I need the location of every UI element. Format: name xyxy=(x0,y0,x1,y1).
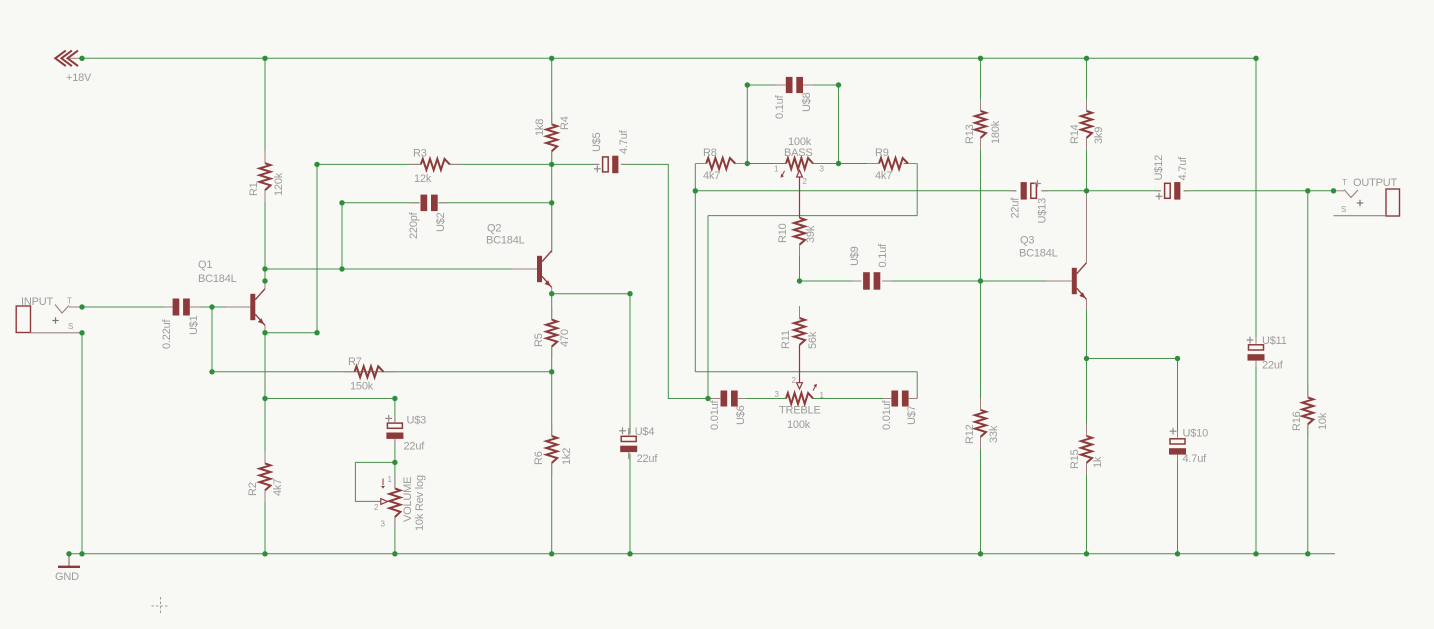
svg-text:1: 1 xyxy=(774,165,779,174)
svg-text:4.7uf: 4.7uf xyxy=(1183,453,1208,465)
junction U$8 right xyxy=(836,82,841,87)
svg-text:U$13: U$13 xyxy=(1037,198,1049,224)
label R9 xyxy=(875,147,889,159)
label U$1 value xyxy=(161,318,173,349)
svg-text:T: T xyxy=(67,297,72,306)
junction Q1 collector branch xyxy=(262,266,267,271)
svg-text:1k: 1k xyxy=(1092,456,1104,468)
junction Q1 emitter xyxy=(262,330,267,335)
svg-text:U$3: U$3 xyxy=(407,415,427,427)
wire R6 to ground rail xyxy=(551,463,553,554)
svg-text:Q1: Q1 xyxy=(198,259,212,271)
wire bass right riser xyxy=(838,85,840,164)
svg-text:0.01uf: 0.01uf xyxy=(709,399,721,430)
svg-text:R12: R12 xyxy=(964,424,976,444)
label R12 xyxy=(964,424,976,444)
junction U$3 top xyxy=(392,396,397,401)
svg-text:Q3: Q3 xyxy=(1020,235,1034,247)
capacitor U$6 0.01uf xyxy=(712,391,746,407)
svg-text:BC184L: BC184L xyxy=(1019,248,1058,260)
label U$4 xyxy=(635,426,655,438)
label VOLUME pin3 xyxy=(381,520,386,529)
junction input tip xyxy=(79,304,84,309)
label R2 value xyxy=(272,479,284,496)
wire U$1 to Q1 base node xyxy=(190,306,251,308)
wire R4 to R3 node xyxy=(551,151,553,164)
transistor Q1 BC184L xyxy=(226,281,265,333)
label U$12 value xyxy=(1177,156,1189,181)
junction gnd R6 xyxy=(549,551,554,556)
junction bass left xyxy=(745,161,750,166)
wire bass left riser xyxy=(746,85,748,164)
label TREBLE pin1 arrow xyxy=(813,384,817,391)
svg-text:22uf: 22uf xyxy=(1010,197,1022,219)
label GND xyxy=(55,571,79,583)
connector OUTPUT jack xyxy=(1334,189,1400,216)
wire R1 branch from rail xyxy=(264,58,266,163)
label R3 xyxy=(413,148,427,160)
junction Q3 emitter xyxy=(1084,356,1089,361)
wire input tip to U$1 xyxy=(82,306,173,308)
junction rail R4 xyxy=(549,56,554,61)
label R16 xyxy=(1291,411,1303,431)
wire Q1 collector node to Q2 base xyxy=(265,268,537,270)
label U$9 xyxy=(849,246,861,266)
wire U$10 to ground rail xyxy=(1177,455,1179,554)
svg-text:1k8: 1k8 xyxy=(534,119,546,136)
label output plus xyxy=(1357,200,1363,206)
svg-text:S: S xyxy=(1341,205,1346,214)
junction gnd sleeve xyxy=(79,551,84,556)
svg-text:BC184L: BC184L xyxy=(198,273,237,285)
label VOLUME pin2 xyxy=(374,503,379,512)
potentiometer TREBLE 100k xyxy=(786,345,813,404)
label R15 value xyxy=(1092,456,1104,468)
svg-text:4k7: 4k7 xyxy=(272,479,284,496)
junction volume branch xyxy=(262,396,267,401)
junction R4 bottom xyxy=(549,162,554,167)
junction U$2 corner xyxy=(339,200,344,205)
wire U$3 volume chain top xyxy=(394,399,396,423)
svg-text:1: 1 xyxy=(388,475,393,484)
capacitor U$7 0.01uf xyxy=(883,391,917,407)
wire R13 node to Q3 base xyxy=(981,280,1048,282)
label U$5 xyxy=(591,132,603,152)
label R13 value xyxy=(990,120,1002,144)
wire R16 to ground rail xyxy=(1307,424,1309,554)
label R14 xyxy=(1069,124,1081,144)
svg-text:R6: R6 xyxy=(533,451,545,465)
junction base node R7 line xyxy=(209,369,214,374)
wire R7 line xyxy=(212,371,552,373)
label U$11 xyxy=(1262,335,1287,347)
svg-text:12k: 12k xyxy=(414,173,432,185)
svg-text:0.22uf: 0.22uf xyxy=(161,318,173,349)
wire R3 line right xyxy=(450,163,552,165)
label R2 xyxy=(247,482,259,496)
label U$7 value xyxy=(881,399,893,430)
label U$8 xyxy=(801,92,813,112)
wire GND rail xyxy=(69,553,1335,555)
junction output tip xyxy=(1331,188,1336,193)
connector INPUT jack xyxy=(16,305,82,333)
junction U$2 base line xyxy=(339,266,344,271)
wire Q3 emitter to R15 xyxy=(1086,359,1088,436)
junction main Q3 xyxy=(1084,188,1089,193)
label Q2 type xyxy=(486,235,525,247)
label R5 xyxy=(533,333,545,347)
wire R7 node to R6 xyxy=(551,372,553,436)
svg-text:S: S xyxy=(68,322,73,331)
label U$5 plus xyxy=(594,165,601,172)
junction R3 corner xyxy=(314,162,319,167)
junction gnd U$11 xyxy=(1253,551,1258,556)
svg-text:R9: R9 xyxy=(875,147,889,159)
label U$12 plus xyxy=(1156,193,1163,200)
label U$8 value xyxy=(774,94,786,119)
junction input sleeve xyxy=(79,330,84,335)
wire R3 left riser xyxy=(316,164,318,332)
junction gnd U$4 xyxy=(627,551,632,556)
origin cross marker xyxy=(152,597,170,615)
svg-text:33k: 33k xyxy=(988,425,1000,443)
wire base node down to R7 line xyxy=(211,307,213,372)
label U$4 value xyxy=(637,453,659,465)
label BASS xyxy=(784,147,813,159)
svg-text:4k7: 4k7 xyxy=(703,170,720,182)
wire R5 to R7 node xyxy=(551,347,553,372)
svg-text:R3: R3 xyxy=(413,148,427,160)
label U$13 value xyxy=(1010,197,1022,219)
label U$4 plus xyxy=(619,427,626,434)
wire +18V rail xyxy=(82,57,1256,59)
wire main line Q3 to U$12 xyxy=(1087,190,1161,192)
label INPUT xyxy=(21,296,53,308)
resistor R2 xyxy=(260,451,271,502)
svg-text:U$8: U$8 xyxy=(801,92,813,112)
svg-text:GND: GND xyxy=(55,571,79,583)
junction rail R1 xyxy=(262,56,267,61)
svg-text:U$2: U$2 xyxy=(435,212,447,232)
resistor R10 xyxy=(794,218,805,256)
svg-text:220pf: 220pf xyxy=(408,211,420,239)
label R1 xyxy=(248,182,260,196)
label R11 value xyxy=(807,331,819,349)
label U$3 plus xyxy=(385,415,392,422)
svg-text:U$9: U$9 xyxy=(849,246,861,266)
label +18V xyxy=(66,72,92,84)
wire R14 branch from rail xyxy=(1086,58,1088,111)
wire base node to R12 xyxy=(980,281,982,410)
svg-text:10k: 10k xyxy=(1317,412,1329,430)
junction U$8 left xyxy=(745,82,750,87)
wire volume pot to ground rail xyxy=(394,517,396,554)
svg-text:0.1uf: 0.1uf xyxy=(774,94,786,119)
capacitor U$11 22uf xyxy=(1248,337,1265,367)
wire U$5 line xyxy=(552,163,600,165)
resistor R3 xyxy=(409,159,462,170)
label VOLUME value xyxy=(414,475,426,531)
wire main line U$13 to Q3 xyxy=(1041,190,1086,192)
label R8 xyxy=(703,147,717,159)
power +18V supply arrow xyxy=(55,51,82,67)
wire +18V rail drop to U$11 xyxy=(1255,58,1257,342)
label R14 value xyxy=(1093,127,1105,144)
label TREBLE value xyxy=(787,419,811,431)
svg-text:3: 3 xyxy=(775,390,780,399)
label U$3 xyxy=(407,415,427,427)
capacitor U$12 4.7uf xyxy=(1156,182,1190,200)
junction Q1 base xyxy=(209,304,214,309)
resistor R5 xyxy=(546,307,557,358)
junction gnd symbol xyxy=(66,551,71,556)
label U$2 value xyxy=(408,211,420,239)
label U$10 xyxy=(1183,428,1209,440)
wire U$3 to volume node xyxy=(394,439,396,463)
junction gnd R15 xyxy=(1084,551,1089,556)
label Q3 type xyxy=(1019,248,1058,260)
wire R15 to ground rail xyxy=(1086,463,1088,554)
capacitor U$2 220pf xyxy=(410,195,448,212)
svg-text:U$10: U$10 xyxy=(1183,428,1209,440)
wire main line U$12 to output xyxy=(1184,190,1334,192)
label U$6 xyxy=(735,405,747,425)
junction bass right xyxy=(836,161,841,166)
svg-text:470: 470 xyxy=(559,329,571,347)
wire U$9 line left xyxy=(800,280,862,282)
wire volume wiper loop xyxy=(355,462,395,501)
label VOLUME xyxy=(402,477,414,522)
svg-text:R10: R10 xyxy=(777,223,789,243)
svg-text:R11: R11 xyxy=(780,330,792,349)
svg-text:39k: 39k xyxy=(805,225,817,243)
capacitor U$13 22uf xyxy=(1010,182,1048,200)
label U$3 value xyxy=(404,441,426,453)
svg-text:R4: R4 xyxy=(559,116,571,130)
svg-text:U$12: U$12 xyxy=(1153,155,1165,181)
wire R9 to right drop xyxy=(904,163,918,165)
label U$6 value xyxy=(709,399,721,430)
resistor R4 xyxy=(546,112,557,163)
wire mid return line xyxy=(708,215,917,217)
svg-text:2: 2 xyxy=(792,376,797,385)
wire mid return drop xyxy=(707,216,709,399)
junction gnd R2 xyxy=(262,551,267,556)
label U$11 plus xyxy=(1247,337,1254,344)
junction U$6 node xyxy=(705,396,710,401)
svg-text:0.01uf: 0.01uf xyxy=(881,399,893,430)
capacitor U$9 0.1uf xyxy=(852,272,892,290)
svg-text:R13: R13 xyxy=(964,124,976,144)
svg-text:120k: 120k xyxy=(273,172,285,196)
label BASS pin1 xyxy=(774,165,779,174)
wire volume branch xyxy=(265,398,395,400)
wire R3 node to Q2 collector xyxy=(551,164,553,252)
svg-text:3: 3 xyxy=(381,520,386,529)
wire R9 right drop xyxy=(916,164,918,216)
wire R2 to ground rail xyxy=(264,491,266,554)
svg-text:10k Rev log: 10k Rev log xyxy=(414,475,426,531)
junction volume wiper node xyxy=(392,460,397,465)
svg-text:+18V: +18V xyxy=(66,72,92,84)
svg-text:Q2: Q2 xyxy=(487,223,501,235)
label R8 value xyxy=(703,170,720,182)
svg-text:22uf: 22uf xyxy=(637,453,659,465)
label U$13 xyxy=(1037,198,1049,224)
transistor Q2 BC184L xyxy=(512,203,552,293)
label R4 xyxy=(559,116,571,130)
capacitor U$10 4.7uf xyxy=(1169,431,1186,461)
junction Q1 collector pin xyxy=(262,278,267,283)
label R1 value xyxy=(273,172,285,196)
wire Q2 emitter branch xyxy=(552,293,630,295)
label R6 value xyxy=(561,448,573,465)
junction U$2 Q2 xyxy=(549,200,554,205)
label Q1 type xyxy=(198,273,237,285)
svg-text:R2: R2 xyxy=(247,482,259,496)
wire U$2 line left xyxy=(342,202,420,204)
transistor Q3 BC184L xyxy=(1047,191,1087,309)
resistor R14 xyxy=(1081,99,1092,150)
wire R8 left drop xyxy=(694,164,696,191)
junction R5 R7 xyxy=(549,369,554,374)
label R9 value xyxy=(875,170,892,182)
svg-text:150k: 150k xyxy=(350,381,374,393)
wire U$6 to treble pot xyxy=(737,398,786,400)
wire R12 to ground rail xyxy=(980,437,982,554)
capacitor U$3 22uf xyxy=(386,416,403,446)
capacitor U$8 0.1uf xyxy=(776,77,813,93)
label U$11 value xyxy=(1262,360,1284,372)
label R11 xyxy=(780,330,792,349)
svg-text:22uf: 22uf xyxy=(1262,360,1284,372)
junction rail corner U$11 xyxy=(1253,56,1258,61)
junction +18V xyxy=(79,56,84,61)
svg-text:3k9: 3k9 xyxy=(1093,127,1105,144)
wire volume node to pot xyxy=(394,462,396,488)
wire feedback drop left xyxy=(694,191,696,372)
resistor R1 xyxy=(260,151,271,202)
junction gnd R16 xyxy=(1305,551,1310,556)
svg-text:180k: 180k xyxy=(990,120,1002,144)
label U$5 value xyxy=(618,129,630,154)
wire Q3 emitter down xyxy=(1086,307,1088,359)
label U$7 xyxy=(906,405,918,425)
svg-text:R16: R16 xyxy=(1291,411,1303,431)
wire U$2 branch riser xyxy=(341,203,343,269)
svg-text:BASS: BASS xyxy=(784,147,813,159)
resistor R13 xyxy=(975,99,986,150)
resistor R7 xyxy=(343,366,395,377)
svg-text:22uf: 22uf xyxy=(404,441,426,453)
svg-text:U$1: U$1 xyxy=(188,315,200,335)
wire bass pot to R9 xyxy=(813,163,879,165)
wire U$8 line left xyxy=(747,84,785,86)
label U$1 xyxy=(188,315,200,335)
label R7 xyxy=(348,356,362,368)
resistor R9 xyxy=(867,158,917,169)
junction Q2 emitter xyxy=(549,291,554,296)
label R13 xyxy=(964,124,976,144)
label output T xyxy=(1342,178,1347,187)
label BASS value xyxy=(788,136,812,148)
junction U$9 R13 xyxy=(978,278,983,283)
label input plus xyxy=(52,317,58,323)
junction R10 U$9 xyxy=(797,278,802,283)
wire main line to Q3 collector xyxy=(1086,191,1088,255)
svg-text:T: T xyxy=(1342,178,1347,187)
wire treble right riser xyxy=(916,372,918,399)
label Q2 xyxy=(487,223,501,235)
label R10 value xyxy=(805,225,817,243)
svg-text:OUTPUT: OUTPUT xyxy=(1353,177,1398,189)
junction gnd volume xyxy=(392,551,397,556)
wire emitter branch to U$10 xyxy=(1087,358,1178,360)
wire U$4 to ground rail xyxy=(629,453,631,553)
resistor R15 xyxy=(1081,424,1092,475)
wire treble line left xyxy=(708,398,721,400)
svg-text:4k7: 4k7 xyxy=(875,170,892,182)
svg-text:U$11: U$11 xyxy=(1262,335,1287,347)
svg-text:R7: R7 xyxy=(348,356,362,368)
wire U$4 branch down xyxy=(629,294,631,435)
wire U$10 drop xyxy=(1177,359,1179,438)
svg-text:4.7uf: 4.7uf xyxy=(1177,156,1189,181)
svg-text:56k: 56k xyxy=(807,331,819,349)
wire U$11 to ground rail xyxy=(1255,362,1257,554)
wire R13 branch from rail xyxy=(980,58,982,111)
junction U$10 corner xyxy=(1175,356,1180,361)
label U$2 xyxy=(435,212,447,232)
wire U$5 to treble route xyxy=(621,164,708,398)
label U$10 plus xyxy=(1170,428,1177,435)
svg-text:R14: R14 xyxy=(1069,124,1081,144)
svg-text:TREBLE: TREBLE xyxy=(779,405,821,417)
wire U$9 line to R13 node xyxy=(882,280,980,282)
svg-text:U$4: U$4 xyxy=(635,426,655,438)
ground GND symbol xyxy=(58,554,80,567)
label R16 value xyxy=(1317,412,1329,430)
junction emitter R3 riser xyxy=(314,330,319,335)
svg-text:2: 2 xyxy=(803,177,808,186)
label TREBLE pin1 xyxy=(820,391,825,400)
label R5 value xyxy=(559,329,571,347)
svg-text:VOLUME: VOLUME xyxy=(402,477,414,522)
wire Q2 emitter node to R5 xyxy=(551,294,553,320)
label VOLUME pin1 arrow xyxy=(381,479,385,489)
label Q3 xyxy=(1020,235,1034,247)
label OUTPUT xyxy=(1353,177,1398,189)
svg-text:BC184L: BC184L xyxy=(486,235,525,247)
svg-text:R1: R1 xyxy=(248,182,260,196)
svg-text:R5: R5 xyxy=(533,333,545,347)
wire input sleeve to ground xyxy=(81,333,83,554)
svg-text:INPUT: INPUT xyxy=(21,296,53,308)
wire main output line xyxy=(695,190,1016,192)
label BASS pin2 xyxy=(803,177,808,186)
label TREBLE pin3 xyxy=(775,390,780,399)
label output S xyxy=(1341,205,1346,214)
label TREBLE pin2 xyxy=(792,376,797,385)
label R15 xyxy=(1069,449,1081,469)
label U$9 value xyxy=(877,243,889,268)
label U$12 xyxy=(1153,155,1165,181)
junction rail R14 xyxy=(1084,56,1089,61)
wire U$2 line right xyxy=(439,202,552,204)
svg-text:U$5: U$5 xyxy=(591,132,603,152)
label Q1 xyxy=(198,259,212,271)
svg-text:R8: R8 xyxy=(703,147,717,159)
